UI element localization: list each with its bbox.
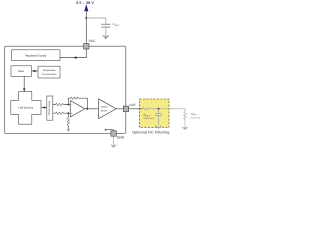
resistor RC filter (143, 108, 151, 110)
svg-text:Optional RC Filtering: Optional RC Filtering (132, 130, 169, 134)
wire VCC to regulated supply (60, 49, 86, 58)
wire cap to ground (105, 27, 107, 36)
output driver triangle (99, 99, 117, 119)
ground resistor from plus input (67, 113, 69, 117)
node amp minus input (67, 104, 69, 106)
resistor bottom input (56, 112, 64, 114)
svg-text:RPU: RPU (192, 112, 198, 117)
wire filter to right (151, 109, 186, 112)
svg-text:Temperature: Temperature (43, 69, 57, 72)
supply arrow (84, 4, 88, 11)
ground (amp resistor) (67, 129, 70, 131)
svg-text:Bias: Bias (18, 69, 24, 73)
svg-text:(Optional): (Optional) (191, 116, 201, 119)
svg-text:Output: Output (101, 106, 108, 109)
wire offset cancel to amp bottom input (53, 112, 71, 114)
wire temp comp to bias (32, 70, 39, 72)
ground (load resistor) (182, 127, 187, 130)
wire amp out (85, 108, 99, 110)
svg-text:OUT: OUT (129, 103, 136, 107)
block Bias (11, 66, 32, 77)
svg-text:GND: GND (117, 136, 125, 140)
pin GND (111, 131, 116, 136)
IC boundary box (5, 46, 126, 133)
svg-text:Compensation: Compensation (42, 73, 58, 76)
svg-text:Regulated Supply: Regulated Supply (25, 54, 47, 57)
pin OUT (123, 106, 128, 111)
resistor feedback (71, 97, 78, 99)
ground (filter cap) (155, 125, 162, 128)
svg-text:Driver: Driver (101, 109, 107, 112)
resistor top input (56, 103, 64, 105)
wire cap to ground (158, 116, 160, 126)
block offset cancel (rotated text) (47, 96, 53, 120)
svg-text:(Optional): (Optional) (144, 117, 154, 120)
resistor load (optional) (184, 112, 186, 120)
wire VCC vertical (85, 11, 87, 44)
arrowhead into regulated supply (73, 56, 77, 58)
arrowhead into bias (32, 70, 35, 72)
svg-text:VCC: VCC (89, 39, 97, 43)
wire offset cancel to amp top input (53, 104, 71, 106)
wire OUT to filter (129, 108, 143, 110)
wire driver to OUT pin (116, 108, 123, 110)
node amp plus input (67, 112, 69, 114)
node filter junction (158, 108, 160, 110)
node supply junction (85, 17, 87, 19)
arrowhead internal ground (105, 129, 107, 131)
wire to bypass cap (86, 18, 106, 24)
wire bias to hall element (23, 76, 25, 91)
svg-text:−: − (71, 103, 73, 107)
feedback path (68, 98, 87, 109)
arrowhead into hall element (23, 88, 25, 91)
svg-text:2.5 – 38 V: 2.5 – 38 V (76, 1, 94, 5)
resistor to ground (67, 118, 69, 126)
optional RC filter highlight box (140, 99, 170, 128)
capacitor CBYP (101, 24, 110, 27)
node feedback junction (86, 108, 88, 110)
pin VCC (84, 44, 89, 49)
ground (GND pin) (113, 136, 115, 145)
svg-text:CBYP: CBYP (113, 22, 120, 27)
ground (bypass cap) (103, 35, 109, 38)
capacitor CFILT (155, 114, 161, 116)
wire hall to offset cancel (41, 107, 47, 109)
op-amp U1 (70, 101, 85, 117)
svg-text:+: + (71, 111, 73, 115)
wire junction to cap (158, 109, 160, 113)
hall element cross (11, 92, 41, 125)
arrowhead into offset cancel (44, 106, 47, 108)
svg-text:Offset Cancel: Offset Cancel (48, 100, 51, 115)
block Regulated Supply (12, 50, 61, 61)
svg-text:Hall Element: Hall Element (19, 106, 34, 109)
block Temperature Compensation (38, 66, 60, 78)
internal ground elbow to GND pin (106, 130, 114, 131)
